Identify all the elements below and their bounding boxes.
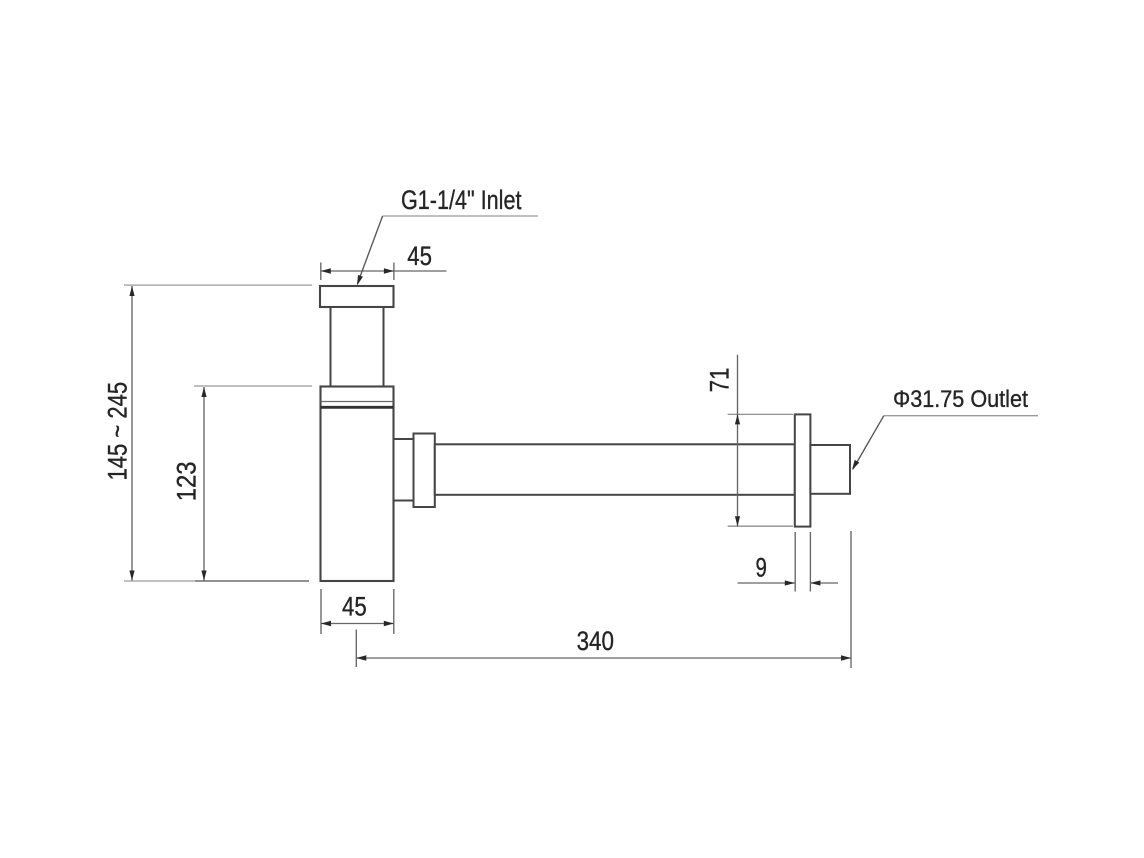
- outlet connector stub: [394, 439, 414, 501]
- svg-text:123: 123: [172, 461, 202, 501]
- dimension 340 (overall length): [356, 531, 851, 668]
- leader G1-1/4 Inlet: [357, 185, 538, 286]
- svg-text:G1-1/4" Inlet: G1-1/4" Inlet: [401, 185, 522, 215]
- dimension 123 (body height): [172, 386, 313, 581]
- dimension 145 ~ 245 (overall height): [103, 285, 313, 581]
- svg-text:145 ~ 245: 145 ~ 245: [103, 382, 133, 481]
- compression nut: [414, 434, 435, 508]
- svg-text:340: 340: [577, 626, 614, 656]
- svg-text:Φ31.75 Outlet: Φ31.75 Outlet: [893, 386, 1028, 413]
- dimension 9 (flange thickness): [738, 532, 839, 592]
- svg-text:45: 45: [342, 592, 367, 622]
- dimension 45 (top width): [321, 241, 447, 280]
- svg-text:9: 9: [756, 553, 767, 583]
- inlet top flange: [320, 286, 394, 307]
- leader Phi 31.75 Outlet: [852, 386, 1038, 470]
- trap body with top cap: [321, 387, 394, 582]
- svg-text:71: 71: [704, 368, 734, 393]
- wall flange (escutcheon): [795, 414, 811, 526]
- dimension 45 (body width bottom): [321, 589, 394, 634]
- horizontal outlet pipe: [435, 444, 795, 495]
- inlet tube: [331, 307, 384, 387]
- svg-text:45: 45: [407, 241, 432, 271]
- dimension 71 (flange diameter): [704, 355, 793, 527]
- outlet pipe end stub: [810, 445, 850, 494]
